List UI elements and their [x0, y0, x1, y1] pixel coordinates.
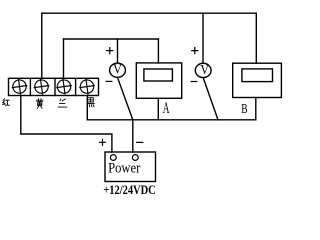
voltmeter V1 letter — [113, 62, 123, 77]
wire drop to meter B top — [255, 13, 257, 63]
terminal 3 screw — [56, 78, 72, 94]
label +12/24VDC — [103, 183, 155, 197]
wire drop to terminal 3 — [63, 39, 65, 78]
terminal block divider 1-2 — [29, 78, 31, 95]
terminal block TB1 outline — [9, 78, 99, 95]
meter A display window — [144, 69, 173, 81]
power supply box — [105, 152, 156, 182]
power terminal minus circle — [132, 155, 138, 161]
power terminal plus circle — [110, 155, 116, 161]
voltmeter V2 minus label — [191, 81, 197, 83]
terminal 4 screw — [79, 78, 95, 94]
power plus label — [100, 139, 106, 145]
wire top horizontal bus — [42, 12, 256, 14]
terminal 1 screw — [11, 78, 27, 94]
wire meter B bottom to bus — [255, 98, 257, 120]
svg-text:Power: Power — [108, 160, 141, 176]
voltmeter V2 letter — [200, 62, 210, 77]
voltmeter V2 plus label — [192, 48, 198, 54]
label hong (red) — [2, 99, 9, 105]
wire drop to terminal 2 — [41, 13, 43, 78]
svg-text:B: B — [241, 100, 247, 116]
wire terminal 1 down-right to power plus — [21, 96, 112, 153]
voltmeter V1 plus label — [107, 48, 113, 54]
meter A outline — [136, 63, 181, 98]
label huang (yellow) — [36, 99, 43, 109]
svg-text:V: V — [200, 62, 210, 77]
wire drop to meter A top — [157, 39, 159, 63]
switch S1 from V1 to bus — [118, 78, 133, 120]
wire second horizontal — [64, 38, 159, 40]
wire drop to voltmeter V1 plus — [117, 39, 119, 63]
svg-text:A: A — [163, 100, 170, 117]
label hei (black) — [87, 98, 94, 107]
meter B outline — [233, 63, 282, 97]
wire drop to voltmeter V2 plus — [202, 13, 204, 63]
switch S2 from V2 to bus — [203, 78, 218, 120]
wire bottom horizontal bus — [87, 119, 256, 121]
wire meter A bottom to bus — [157, 98, 159, 120]
terminal block divider 3-4 — [75, 78, 77, 95]
svg-text:+12/24VDC: +12/24VDC — [103, 183, 155, 197]
voltmeter V1 minus label — [106, 80, 112, 82]
svg-text:V: V — [113, 62, 123, 77]
terminal 2 screw — [33, 78, 49, 94]
terminal block divider 2-3 — [54, 78, 56, 95]
wire terminal 4 drop to bottom bus — [86, 96, 88, 120]
label B — [241, 100, 247, 116]
power text — [108, 160, 141, 176]
voltmeter V2 circle — [195, 63, 211, 77]
power minus label — [137, 141, 143, 143]
label A — [163, 100, 170, 117]
meter B display window — [242, 69, 273, 82]
label lan (blue) — [58, 99, 67, 107]
wire power minus drop — [132, 120, 134, 152]
voltmeter V1 circle — [110, 63, 126, 77]
